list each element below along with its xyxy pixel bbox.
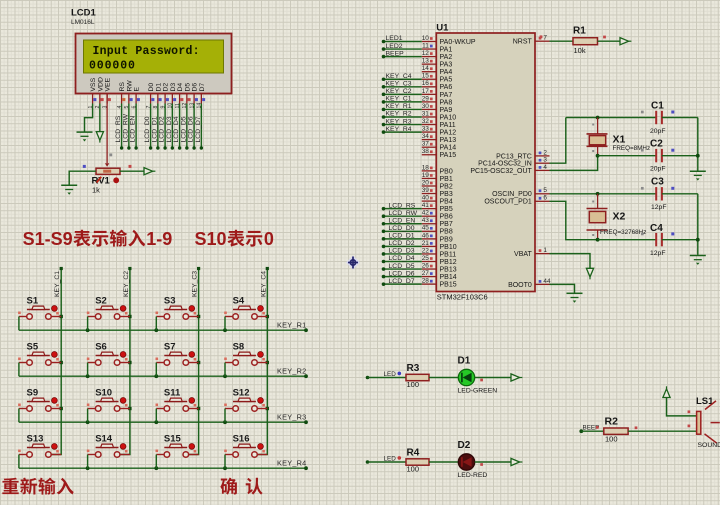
pin 2 PC13_RTC xyxy=(535,155,550,157)
svg-text:KEY_C1: KEY_C1 xyxy=(54,271,61,297)
svg-text:KEY_R2: KEY_R2 xyxy=(277,367,307,376)
svg-text:5: 5 xyxy=(543,187,547,194)
power arrow right D1 xyxy=(511,374,520,381)
svg-text:KEY_C3: KEY_C3 xyxy=(386,81,412,88)
junction col2 row1 xyxy=(128,315,131,318)
power arrow up LS1 xyxy=(663,389,670,398)
svg-text:D2: D2 xyxy=(163,83,170,92)
svg-text:KEY_R3: KEY_R3 xyxy=(277,413,307,422)
svg-text:2: 2 xyxy=(543,149,547,156)
junction col4 row1 xyxy=(266,315,269,318)
ground below LCD VSS xyxy=(77,131,93,133)
svg-text:PA7: PA7 xyxy=(440,92,453,99)
pin 13 PA3 xyxy=(422,63,437,65)
wire RV1 right to power xyxy=(120,170,144,172)
wire C1 to right rail xyxy=(662,117,698,119)
svg-text:16: 16 xyxy=(422,80,430,87)
svg-text:LED: LED xyxy=(384,455,397,462)
junction X1 top xyxy=(596,116,600,120)
wire net LCD_RW xyxy=(384,215,422,217)
svg-text:PA0-WKUP: PA0-WKUP xyxy=(440,39,476,46)
svg-text:D3: D3 xyxy=(170,83,177,92)
svg-text:45: 45 xyxy=(422,225,430,232)
pin 3 PC14-OSC32_IN xyxy=(535,162,550,164)
pin 33 PA12 xyxy=(422,131,437,133)
junction col1 row1 xyxy=(60,315,63,318)
svg-text:KEY_C3: KEY_C3 xyxy=(192,271,199,297)
svg-text:1: 1 xyxy=(543,247,547,254)
column wire KEY_C3 xyxy=(189,269,199,455)
pin 45 PB8 xyxy=(422,230,437,232)
svg-text:KEY_R2: KEY_R2 xyxy=(386,111,412,118)
svg-text:D5: D5 xyxy=(184,83,191,92)
svg-text:D7: D7 xyxy=(199,83,206,92)
pin 19 PB1 xyxy=(422,177,437,179)
wire net LCD_D6 xyxy=(384,276,422,278)
svg-text:KEY_R4: KEY_R4 xyxy=(386,126,412,133)
svg-text:OSCOUT_PD1: OSCOUT_PD1 xyxy=(484,199,532,206)
wire S16 to row xyxy=(224,455,226,469)
svg-text:LED2: LED2 xyxy=(386,43,403,50)
svg-text:LED-GREEN: LED-GREEN xyxy=(458,387,498,394)
pin 39 PB3 xyxy=(422,193,437,195)
wire RV1 left to ground xyxy=(69,171,96,185)
svg-text:PA5: PA5 xyxy=(440,77,453,84)
svg-text:S4: S4 xyxy=(233,296,245,307)
ground at BOOT0 xyxy=(567,292,583,294)
wire S3 to row xyxy=(155,317,157,331)
svg-text:R1: R1 xyxy=(573,26,586,37)
junction col1 row2 xyxy=(60,361,63,364)
svg-text:42: 42 xyxy=(422,210,430,217)
wire net KEY_C1 xyxy=(384,101,422,103)
svg-text:26: 26 xyxy=(422,262,430,269)
svg-text:20pF: 20pF xyxy=(650,166,666,173)
pin 18 PB0 xyxy=(422,170,437,172)
wire S4 to row xyxy=(224,317,226,331)
svg-text:PB13: PB13 xyxy=(440,266,457,273)
svg-text:KEY_C2: KEY_C2 xyxy=(123,271,130,297)
svg-text:25: 25 xyxy=(422,255,430,262)
svg-text:D0: D0 xyxy=(148,83,155,92)
svg-text:LCD_D6: LCD_D6 xyxy=(188,116,195,142)
svg-text:S2: S2 xyxy=(95,296,107,307)
svg-text:LCD_EN: LCD_EN xyxy=(389,217,416,224)
svg-text:S1: S1 xyxy=(27,296,39,307)
svg-text:PA15: PA15 xyxy=(440,152,457,159)
svg-text:KEY_C1: KEY_C1 xyxy=(386,96,412,103)
pin 11 PA1 xyxy=(422,48,437,50)
pin 14 PA4 xyxy=(422,71,437,73)
wire VDD to power xyxy=(99,104,101,132)
svg-text:KEY_C4: KEY_C4 xyxy=(386,73,412,80)
svg-text:10: 10 xyxy=(422,35,430,42)
svg-text:10k: 10k xyxy=(574,46,586,55)
junction col3 row3 xyxy=(197,407,200,410)
LCD pin stubs and numbers xyxy=(92,94,94,104)
junction row2 col3 xyxy=(154,374,158,378)
svg-text:KEY_R3: KEY_R3 xyxy=(386,118,412,125)
pin 40 PB4 xyxy=(422,200,437,202)
svg-text:S13: S13 xyxy=(27,434,44,445)
svg-text:33: 33 xyxy=(422,126,430,133)
wire LED1 net to R3 xyxy=(366,376,370,380)
svg-text:LCD_D5: LCD_D5 xyxy=(389,263,415,270)
wire VBAT to power xyxy=(550,254,591,269)
wire BOOT0 to ground xyxy=(550,284,575,293)
wire D2 to power xyxy=(475,461,511,463)
wire net LED2 xyxy=(384,48,422,50)
svg-text:LCD_RW: LCD_RW xyxy=(389,210,418,217)
svg-text:C4: C4 xyxy=(650,223,663,234)
pin 4 PC15-OSC32_OUT xyxy=(535,169,550,171)
wire NRST to R1 xyxy=(550,40,574,42)
svg-text:0: 0 xyxy=(264,229,274,249)
junction row3 col4 xyxy=(223,420,227,424)
svg-text:S6: S6 xyxy=(95,342,107,353)
svg-text:LCD_D2: LCD_D2 xyxy=(389,240,415,247)
svg-text:100: 100 xyxy=(605,435,618,444)
svg-text:SOUNDER: SOUNDER xyxy=(698,442,720,449)
svg-text:LCD_RS: LCD_RS xyxy=(115,115,122,142)
pin 29 PA8 xyxy=(422,101,437,103)
wire S2 to row xyxy=(87,317,89,331)
power arrow down VDD xyxy=(96,132,103,141)
svg-text:KEY_C2: KEY_C2 xyxy=(386,88,412,95)
junction X2 bottom xyxy=(596,238,600,242)
svg-text:D6: D6 xyxy=(192,83,199,92)
power arrow right RV1 xyxy=(144,168,153,175)
svg-text:RW: RW xyxy=(126,80,133,92)
svg-text:LCD_D1: LCD_D1 xyxy=(389,233,415,240)
pin 34 PA13 xyxy=(422,139,437,141)
svg-text:X1: X1 xyxy=(613,134,626,146)
pin 31 PA10 xyxy=(422,116,437,118)
pin 32 PA11 xyxy=(422,124,437,126)
svg-text:27: 27 xyxy=(422,270,430,277)
svg-text:7: 7 xyxy=(543,35,547,42)
wire net LED1 xyxy=(384,41,422,43)
crystal X1 FREQ=8MHz xyxy=(597,118,599,134)
svg-text:KEY_R4: KEY_R4 xyxy=(277,459,307,468)
svg-text:PA1: PA1 xyxy=(440,46,453,53)
svg-text:FREQ=8MHz: FREQ=8MHz xyxy=(613,145,651,152)
wire S1 to row xyxy=(18,317,20,331)
LCD data wires with net labels xyxy=(121,104,123,149)
svg-text:C2: C2 xyxy=(650,139,663,150)
svg-text:PB5: PB5 xyxy=(440,206,453,213)
wire D1 to power xyxy=(475,377,511,379)
junction row4 col3 xyxy=(154,466,158,470)
svg-text:6: 6 xyxy=(543,195,547,202)
svg-text:S14: S14 xyxy=(95,434,113,445)
svg-text:PB15: PB15 xyxy=(440,282,457,289)
svg-text:39: 39 xyxy=(422,187,430,194)
svg-text:LCD_RS: LCD_RS xyxy=(389,202,416,209)
svg-text:LCD_D4: LCD_D4 xyxy=(389,255,415,262)
svg-text:PB1: PB1 xyxy=(440,176,453,183)
wire S8 to row xyxy=(224,363,226,377)
annotation confirm xyxy=(220,478,236,495)
svg-text:S7: S7 xyxy=(164,342,176,353)
pin 38 PA15 xyxy=(422,154,437,156)
svg-text:PB0: PB0 xyxy=(440,168,453,175)
svg-text:34: 34 xyxy=(422,133,430,140)
svg-text:11: 11 xyxy=(422,42,429,49)
wire S15 to row xyxy=(155,455,157,469)
svg-text:D2: D2 xyxy=(458,440,471,451)
pin 17 PA7 xyxy=(422,93,437,95)
wire S12 to row xyxy=(224,409,226,423)
junction X1 bottom xyxy=(596,154,600,158)
pin 46 PB9 xyxy=(422,238,437,240)
svg-text:FREQ=32768Hz: FREQ=32768Hz xyxy=(600,229,646,236)
wire VSS to ground xyxy=(85,104,93,132)
junction col3 row2 xyxy=(197,361,200,364)
svg-text:20pF: 20pF xyxy=(650,128,666,135)
svg-text:40: 40 xyxy=(422,195,430,202)
svg-text:LCD_D4: LCD_D4 xyxy=(173,116,180,142)
svg-text:PB6: PB6 xyxy=(440,214,453,221)
svg-text:LCD_D3: LCD_D3 xyxy=(389,248,415,255)
svg-text:S15: S15 xyxy=(164,434,182,445)
svg-text:18: 18 xyxy=(422,164,430,171)
wire net LCD_D7 xyxy=(384,283,422,285)
wire net KEY_C4 xyxy=(384,78,422,80)
ground right of C4 xyxy=(690,255,706,257)
junction row2 col2 xyxy=(86,374,90,378)
svg-text:100: 100 xyxy=(407,380,420,389)
junction row1 col3 xyxy=(154,328,158,332)
wire R4 to D2 xyxy=(429,461,458,463)
LCD display LCD1 LM016L xyxy=(76,34,232,94)
svg-text:S3: S3 xyxy=(164,296,176,307)
svg-text:STM32F103C6: STM32F103C6 xyxy=(437,293,488,302)
wire pin3 to X1 top node xyxy=(550,118,566,164)
junction row3 col2 xyxy=(86,420,90,424)
svg-text:C3: C3 xyxy=(651,177,664,188)
wire net LCD_D2 xyxy=(384,245,422,247)
svg-text:32: 32 xyxy=(422,118,430,125)
svg-text:PB7: PB7 xyxy=(440,221,453,228)
svg-text:41: 41 xyxy=(422,202,430,209)
svg-text:R4: R4 xyxy=(407,448,420,459)
svg-text:PB8: PB8 xyxy=(440,229,453,236)
svg-text:S5: S5 xyxy=(27,342,39,353)
svg-text:31: 31 xyxy=(422,110,430,117)
svg-text:PA10: PA10 xyxy=(440,114,457,121)
svg-text:PA6: PA6 xyxy=(440,84,453,91)
pin 42 PB6 xyxy=(422,215,437,217)
svg-text:PA12: PA12 xyxy=(440,130,457,137)
wire S11 to row xyxy=(155,409,157,423)
ground at RV1 xyxy=(61,184,77,186)
pin 25 PB12 xyxy=(422,261,437,263)
wire S7 to row xyxy=(155,363,157,377)
svg-text:PB2: PB2 xyxy=(440,183,453,190)
right rail X1 to ground xyxy=(697,118,699,171)
svg-text:D1: D1 xyxy=(155,83,162,92)
pin 20 PB2 xyxy=(422,185,437,187)
column wire KEY_C2 xyxy=(120,269,130,455)
svg-text:LCD_D7: LCD_D7 xyxy=(195,116,202,142)
svg-text:21: 21 xyxy=(422,240,430,247)
wire net LCD_D1 xyxy=(384,238,422,240)
svg-text:S1-S9: S1-S9 xyxy=(23,229,73,249)
wire C2 to right rail xyxy=(662,155,698,157)
junction row1 col4 xyxy=(223,328,227,332)
power arrow down VBAT xyxy=(586,268,593,277)
wire pin5 to X2 top node and C3 xyxy=(550,193,657,195)
wire S10 to row xyxy=(87,409,89,423)
svg-text:BOOT0: BOOT0 xyxy=(508,282,532,289)
svg-text:LED-RED: LED-RED xyxy=(458,472,488,479)
svg-text:LCD_D3: LCD_D3 xyxy=(166,116,173,142)
svg-text:LCD_D0: LCD_D0 xyxy=(389,225,415,232)
wire net KEY_C3 xyxy=(384,86,422,88)
junction row2 col4 xyxy=(223,374,227,378)
svg-text:Input Password:: Input Password: xyxy=(93,45,200,58)
wire X1 bottom node to C2 xyxy=(598,155,657,157)
svg-text:PA2: PA2 xyxy=(440,54,453,61)
crystal X2 FREQ=32768Hz xyxy=(597,194,599,209)
wire net KEY_R1 xyxy=(384,108,422,110)
wire net LCD_EN xyxy=(384,223,422,225)
pin 1 VBAT xyxy=(535,253,550,255)
svg-text:14: 14 xyxy=(422,65,430,72)
svg-text:VDD: VDD xyxy=(97,77,104,91)
svg-text:28: 28 xyxy=(422,278,430,285)
svg-text:S10: S10 xyxy=(195,229,227,249)
wire net BEEP xyxy=(384,56,422,58)
svg-text:PA13: PA13 xyxy=(440,137,457,144)
svg-text:PB11: PB11 xyxy=(440,251,457,258)
row wire KEY_R2 xyxy=(19,375,306,377)
svg-text:13: 13 xyxy=(422,58,430,65)
svg-text:KEY_C4: KEY_C4 xyxy=(260,271,267,297)
pin 30 PA9 xyxy=(422,108,437,110)
wire R1 to power xyxy=(598,40,621,42)
svg-text:LCD_D6: LCD_D6 xyxy=(389,270,415,277)
pin 43 PB7 xyxy=(422,223,437,225)
wire R2 to LS1 xyxy=(628,430,697,432)
svg-text:LCD_D7: LCD_D7 xyxy=(389,278,415,285)
pin 15 PA5 xyxy=(422,78,437,80)
pin 5 OSCIN_PD0 xyxy=(535,193,550,195)
svg-text:E: E xyxy=(134,87,141,92)
wire power to LS1 top pin xyxy=(667,398,697,416)
wire LED2 net to R4 xyxy=(366,460,370,464)
pin 22 PB11 xyxy=(422,253,437,255)
pin 10 PA0-WKUP xyxy=(422,41,437,43)
svg-text:PC14-OSC32_IN: PC14-OSC32_IN xyxy=(478,161,532,168)
svg-text:S8: S8 xyxy=(233,342,245,353)
junction col3 row1 xyxy=(197,315,200,318)
svg-text:1-9: 1-9 xyxy=(146,229,172,249)
wire S6 to row xyxy=(87,363,89,377)
right rail X2 to ground xyxy=(697,194,699,255)
svg-text:PB3: PB3 xyxy=(440,191,453,198)
wire S5 to row xyxy=(18,363,20,377)
svg-text:S9: S9 xyxy=(27,388,39,399)
row wire KEY_R4 xyxy=(19,467,306,469)
junction row4 col2 xyxy=(86,466,90,470)
grey origin marker RV1 xyxy=(109,154,112,157)
svg-text:PC15-OSC32_OUT: PC15-OSC32_OUT xyxy=(470,168,532,175)
pin 12 PA2 xyxy=(422,56,437,58)
svg-text:LCD1: LCD1 xyxy=(71,8,97,19)
junction row1 col2 xyxy=(86,328,90,332)
svg-text:PA4: PA4 xyxy=(440,69,453,76)
pin 26 PB13 xyxy=(422,268,437,270)
svg-text:29: 29 xyxy=(422,95,430,102)
wire net LCD_D5 xyxy=(384,268,422,270)
svg-text:C1: C1 xyxy=(651,101,664,112)
wire C4 to right rail xyxy=(662,239,698,241)
svg-text:LCD_D1: LCD_D1 xyxy=(151,116,158,142)
wire C3 to right rail xyxy=(662,193,698,195)
svg-text:VBAT: VBAT xyxy=(514,251,532,258)
wire net KEY_R4 xyxy=(384,131,422,133)
wire net LCD_D3 xyxy=(384,253,422,255)
junction X2 top xyxy=(596,192,600,196)
svg-text:PA3: PA3 xyxy=(440,62,453,69)
row wire KEY_R3 xyxy=(19,421,306,423)
svg-text:LM016L: LM016L xyxy=(71,19,95,26)
svg-text:NRST: NRST xyxy=(513,39,533,46)
annotation retry input xyxy=(2,478,18,494)
wire pin4 up to X1 bottom node xyxy=(550,156,598,171)
svg-text:PC13_RTC: PC13_RTC xyxy=(496,153,532,160)
svg-text:100: 100 xyxy=(407,464,420,473)
svg-text:37: 37 xyxy=(422,141,430,148)
row wire KEY_R1 xyxy=(19,329,306,331)
svg-text:43: 43 xyxy=(422,217,430,224)
svg-text:PA9: PA9 xyxy=(440,107,453,114)
wire X1 top node to C1 xyxy=(566,117,656,119)
svg-text:VSS: VSS xyxy=(90,77,97,91)
svg-text:1k: 1k xyxy=(92,186,100,195)
svg-text:KEY_R1: KEY_R1 xyxy=(277,321,307,330)
wire S9 to row xyxy=(18,409,20,423)
svg-text:OSCIN_PD0: OSCIN_PD0 xyxy=(492,191,532,198)
svg-text:KEY_R1: KEY_R1 xyxy=(386,103,412,110)
svg-text:12: 12 xyxy=(422,50,430,57)
svg-text:LED: LED xyxy=(384,371,397,378)
svg-text:U1: U1 xyxy=(436,23,449,34)
junction col2 row3 xyxy=(128,407,131,410)
junction col2 row2 xyxy=(128,361,131,364)
pin 37 PA14 xyxy=(422,146,437,148)
wire R3 to D1 xyxy=(429,377,458,379)
pin 41 PB5 xyxy=(422,208,437,210)
svg-text:38: 38 xyxy=(422,148,430,155)
wire net LCD_D0 xyxy=(384,230,422,232)
wire VEE to RV1 wiper xyxy=(106,94,108,163)
wire X2 bottom node to C4 xyxy=(598,239,657,241)
microcontroller U1 STM32F103C6 body xyxy=(436,33,535,292)
pin 27 PB14 xyxy=(422,276,437,278)
wire net LCD_RS xyxy=(384,208,422,210)
column wire KEY_C4 xyxy=(258,269,268,455)
svg-text:PB10: PB10 xyxy=(440,244,457,251)
junction row3 col3 xyxy=(154,420,158,424)
svg-text:D4: D4 xyxy=(177,83,184,92)
power arrow right D2 xyxy=(511,458,520,465)
svg-text:12pF: 12pF xyxy=(651,204,667,211)
svg-text:PB14: PB14 xyxy=(440,274,457,281)
pin 6 OSCOUT_PD1 xyxy=(535,200,550,202)
